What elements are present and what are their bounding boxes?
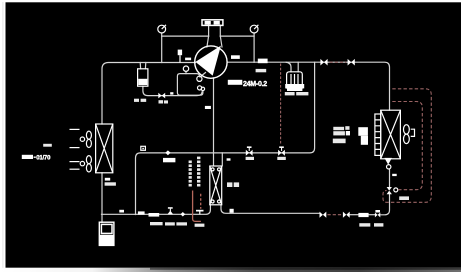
svg-text:24M-0.2: 24M-0.2: [243, 81, 267, 88]
svg-text:01/70: 01/70: [36, 155, 51, 161]
